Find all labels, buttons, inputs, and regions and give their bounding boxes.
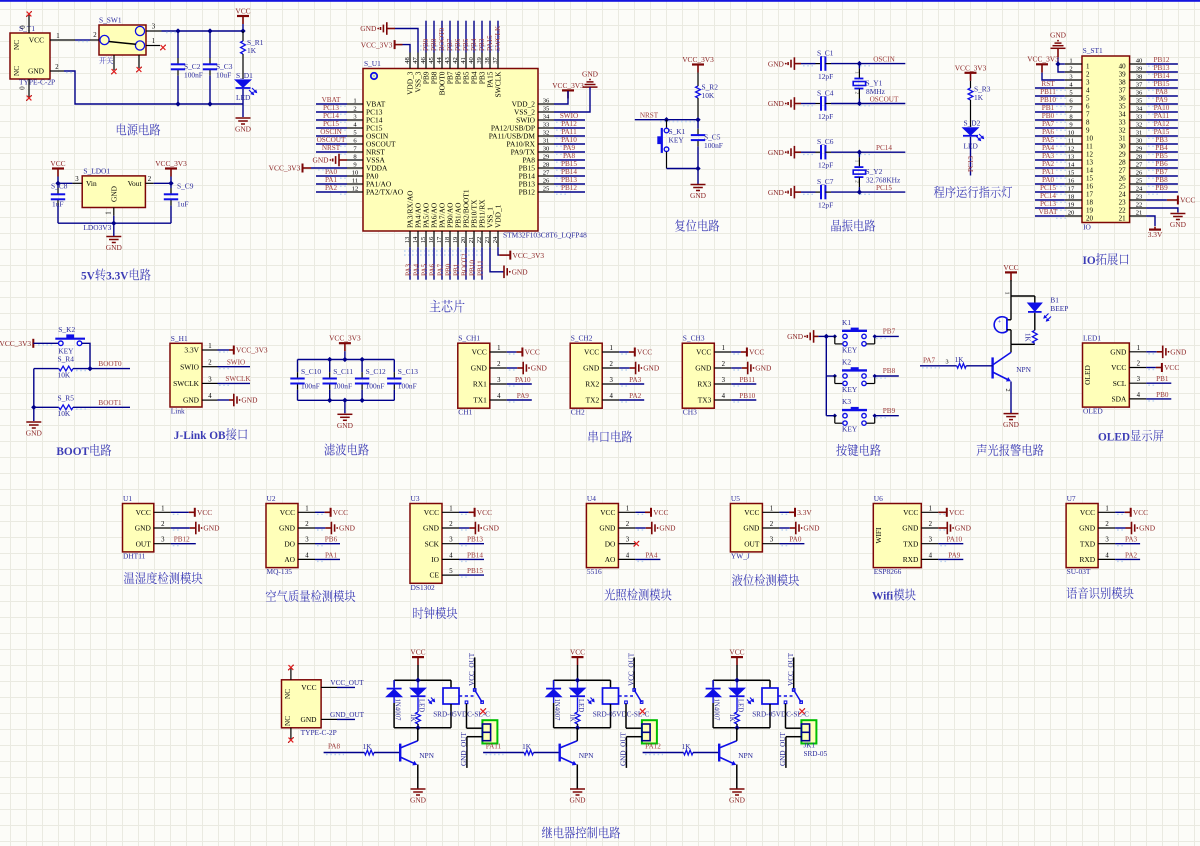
wire key to cap bottom (667, 168, 699, 170)
S_ST1 pin 16 line (1065, 177, 1082, 184)
svg-text:PA12: PA12 (561, 120, 577, 128)
svg-text:3: 3 (770, 537, 774, 544)
svg-text:TX3: TX3 (698, 396, 712, 405)
svg-text:41: 41 (460, 57, 467, 64)
module U3 body (410, 504, 442, 584)
svg-text:TX1: TX1 (473, 396, 487, 405)
connector T name TYPE-C-2P (301, 728, 337, 737)
svg-text:PB4: PB4 (470, 38, 478, 51)
ground GND filter (337, 414, 354, 430)
svg-text:3: 3 (161, 537, 165, 544)
wire U5 pin1 to 3.3V (779, 512, 789, 514)
S_CH3 pin name VCC (696, 348, 711, 357)
buzzer B1 designator (1050, 296, 1059, 305)
resistor lead to rail (577, 724, 579, 728)
capacitor S_C13 leads (393, 360, 395, 401)
wire net OSCOUT to pin 6 (316, 144, 348, 146)
net label PB0 (1156, 391, 1169, 399)
relay part name SRD-05VDC-SL-C (593, 711, 650, 719)
crystal lead top (858, 152, 860, 167)
svg-text:GND: GND (183, 396, 200, 405)
svg-text:35: 35 (543, 105, 550, 112)
U4 pin name VCC (600, 508, 615, 517)
S_H1 pin name GND (183, 396, 200, 405)
svg-text:GND: GND (1079, 524, 1096, 533)
connector JK body (801, 720, 816, 743)
svg-text:23: 23 (1136, 193, 1143, 200)
svg-text:4: 4 (353, 121, 357, 128)
wire pin 29 to net PA8 (554, 160, 585, 162)
S_ST1 pin 32 number inside (1119, 126, 1127, 134)
svg-text:3: 3 (1105, 537, 1109, 544)
svg-text:PB15: PB15 (467, 567, 483, 575)
svg-text:PC15: PC15 (323, 120, 339, 128)
svg-text:GND: GND (471, 364, 488, 373)
net label PC13 (1040, 200, 1056, 208)
svg-text:19: 19 (452, 236, 459, 243)
U6 pin name RXD (903, 555, 919, 564)
wire GND_OUT t (337, 718, 355, 720)
svg-text:2: 2 (626, 521, 630, 528)
svg-text:9: 9 (353, 161, 357, 168)
svg-text:AO: AO (284, 555, 295, 564)
power port VCC_3V3 at LDO out (155, 159, 187, 177)
net label GND_OUT (330, 711, 365, 719)
S_H1 pin 1 line (202, 343, 218, 350)
svg-text:15: 15 (1086, 174, 1094, 182)
S_U1 pin 5 name OSCIN (366, 132, 389, 141)
connector T TYPE-C-2P body (282, 680, 322, 728)
svg-text:NRST: NRST (640, 111, 659, 119)
power 3.3V at U5 pin1 (789, 508, 812, 517)
svg-text:KEY: KEY (842, 345, 858, 354)
wire H1 pin3 SWCLK (218, 383, 251, 385)
svg-text:3: 3 (1069, 73, 1073, 80)
junction key branch (664, 118, 668, 122)
ground GND at U2 pin2 (331, 522, 355, 535)
svg-text:TXD: TXD (1080, 539, 1096, 548)
svg-text:2: 2 (1105, 521, 1109, 528)
net label PB7 (883, 328, 896, 336)
resistor 1K input value (522, 743, 532, 751)
U7 pin 1 line (1098, 505, 1115, 512)
svg-text:GND: GND (1139, 524, 1156, 533)
svg-text:0: 0 (20, 86, 27, 90)
wire U6 pin4 net PA9 (938, 559, 963, 561)
net label VCC_OUT vertical (787, 652, 795, 686)
capacitor S_C2 (171, 64, 185, 69)
light-blue marks under bottom pins (404, 251, 481, 255)
resistor S_R3 designator (974, 85, 991, 94)
svg-text:PC14: PC14 (876, 144, 892, 152)
S_ST1 pin 18 number inside (1086, 198, 1094, 206)
wire trunk to key K2 (826, 375, 835, 377)
S_U1 pin 40 line (468, 53, 475, 69)
wire net PA4 to ST1 pin 12 (1035, 152, 1066, 154)
S_CH2 pin name VCC (584, 348, 599, 357)
svg-text:NPN: NPN (579, 751, 594, 760)
svg-text:BEEP: BEEP (1050, 304, 1068, 313)
net label PB9 (883, 407, 896, 415)
S_U1 pin 43 name PB7 (446, 71, 455, 84)
S_U1 pin 10 line (347, 169, 363, 176)
module LED1 designator (1083, 334, 1101, 343)
S_U1 pin 33 line (538, 121, 554, 128)
svg-text:31: 31 (543, 137, 550, 144)
U4 pin name GND (599, 524, 616, 533)
title 时钟模块 (413, 607, 457, 619)
wire U2 pin4 net PA1 (315, 559, 340, 561)
wire NRST (635, 120, 698, 122)
svg-text:TYPE-C-2P: TYPE-C-2P (301, 728, 337, 737)
svg-text:PB11: PB11 (477, 260, 485, 276)
wire H1 pin2 SWIO (218, 367, 251, 369)
wire ST1 pin 26 to net PB7 (1146, 176, 1178, 178)
svg-text:OLED: OLED (1083, 407, 1103, 416)
svg-text:PB5: PB5 (1155, 152, 1168, 160)
svg-text:K2: K2 (842, 358, 851, 367)
svg-text:PC14: PC14 (323, 112, 339, 120)
net label PA8 (1155, 88, 1168, 96)
net label PB12 (561, 184, 577, 192)
svg-text:S_C9: S_C9 (177, 182, 194, 191)
junction K1 left (833, 335, 836, 338)
svg-text:4: 4 (449, 552, 453, 559)
capacitor S_C13 designator (398, 367, 418, 376)
wire U1 pin3 net PB12 (171, 544, 196, 546)
wire pin24 to VCC_3V3 (498, 247, 499, 255)
svg-text:45: 45 (428, 57, 435, 64)
svg-text:4: 4 (208, 393, 212, 400)
relay loop bottom rail (713, 727, 770, 729)
wire gnd to S_C4 (801, 104, 821, 106)
wire LED1 pin3 net PB1 (1146, 383, 1171, 385)
svg-text:100nF: 100nF (184, 71, 203, 80)
wire pin23 to GND (490, 247, 504, 271)
net label BOOT1 (98, 399, 122, 407)
resistor S_R2 designator (702, 83, 719, 92)
module U1 body (123, 504, 154, 552)
capacitor S_C3 (203, 64, 217, 69)
key K2 hook left (835, 376, 843, 384)
svg-text:PC15: PC15 (1040, 184, 1056, 192)
capacitor S_C3 leads (209, 31, 211, 104)
svg-text:PB10: PB10 (1040, 96, 1056, 104)
net label PA0 (789, 536, 802, 544)
power VCC_3V3 filter (329, 334, 361, 352)
S_U1 pin 8 line (347, 153, 363, 160)
regulator S_LDO1 name LDO3V3 (83, 223, 111, 232)
S_U1 pin 24 name VDD_1 (494, 204, 503, 228)
svg-text:VCC: VCC (600, 508, 615, 517)
relay fixed contact (784, 701, 787, 704)
power VCC at S_CH2 pin1 (629, 348, 652, 357)
relay loop right bottom (450, 704, 452, 728)
svg-text:VCC: VCC (301, 683, 316, 692)
transistor NPN relay (400, 741, 434, 765)
wire pin 13 down net PA3 (409, 247, 411, 279)
capacitor S_C8 designator (51, 182, 68, 191)
svg-text:2: 2 (449, 521, 453, 528)
U2 pin 1 line (298, 505, 315, 512)
svg-text:27: 27 (1119, 166, 1127, 174)
U2 pin name GND (279, 524, 296, 533)
module U3 designator (411, 494, 420, 503)
key S_K1 contact top (664, 128, 669, 133)
S_H1 pin name SWIO (180, 362, 200, 371)
U3 pin name SCK (425, 539, 440, 548)
wire S_CH1 pin4 net PA9 (507, 400, 532, 402)
wire S_CH3 pin4 net PB10 (731, 400, 756, 402)
net label PA3 (629, 376, 642, 384)
junction C2 bottom (176, 102, 180, 106)
svg-text:1uF: 1uF (52, 200, 64, 209)
svg-text:4: 4 (1086, 86, 1090, 94)
transistor NPN relay (560, 741, 594, 765)
wire key trunk (825, 336, 827, 415)
svg-text:5: 5 (1086, 94, 1090, 102)
svg-text:44: 44 (436, 57, 443, 64)
svg-text:PA4: PA4 (645, 551, 658, 559)
svg-text:VCC: VCC (525, 348, 540, 357)
svg-text:9: 9 (1086, 126, 1090, 134)
svg-text:VCC: VCC (472, 348, 487, 357)
wire U6 pin2 to GND (938, 528, 947, 530)
S_U1 pin 20 name PB2/BOOT1 (462, 189, 471, 228)
svg-text:3: 3 (353, 113, 357, 120)
S_ST1 pin 14 number inside (1086, 166, 1094, 174)
svg-text:22: 22 (1119, 206, 1127, 214)
ground GND at S_CH3 pin2 (748, 362, 772, 375)
wire U3 pin3 net PB13 (459, 544, 484, 546)
S_U1 pin 15 name PA5/AO (422, 202, 431, 228)
wire ST1 pin 38 to net PB14 (1146, 80, 1178, 82)
key K3 hook left (835, 416, 843, 424)
wire pin 34 to net SWIO (554, 120, 585, 122)
svg-text:PA3: PA3 (1042, 152, 1055, 160)
module U6 designator (874, 494, 883, 503)
svg-text:16: 16 (1068, 177, 1075, 184)
svg-text:3: 3 (305, 537, 309, 544)
U4 pin 2 line (618, 521, 635, 528)
svg-text:OSCOUT: OSCOUT (317, 136, 346, 144)
svg-text:MQ-135: MQ-135 (267, 567, 293, 576)
key K3 contact circles left (843, 414, 847, 426)
svg-text:1: 1 (853, 71, 859, 74)
wire LDO GND down (113, 216, 115, 223)
S_U1 pin 12 name PA2/TX/AO (366, 188, 404, 197)
S_ST1 pin 37 number inside (1119, 86, 1127, 94)
net label PB0 vertical (445, 263, 453, 276)
svg-text:GND: GND (768, 59, 785, 68)
net label PA15 (1154, 128, 1170, 136)
S_ST1 pin 27 number inside (1119, 166, 1127, 174)
relay loop top rail (394, 679, 451, 681)
S_SW1 contact circle bottom-right (135, 41, 144, 50)
S_ST1 pin 5 line (1065, 89, 1082, 96)
svg-text:2: 2 (609, 361, 613, 368)
connector S_T1 part name TYPE-C-2P (19, 78, 55, 87)
svg-text:1K: 1K (409, 714, 416, 722)
resistor 1K alarm (1032, 330, 1037, 343)
svg-text:24: 24 (492, 236, 499, 243)
resistor S_R5 (59, 405, 73, 410)
S_SW1 pin 1 (146, 38, 160, 46)
svg-text:SWCLK: SWCLK (225, 375, 251, 383)
junction C3 top (208, 29, 212, 33)
capacitor S_C10 leads (297, 360, 299, 401)
net label SWCLK vertical (494, 25, 502, 51)
title 复位电路 (675, 219, 719, 231)
svg-text:RST: RST (1041, 80, 1055, 88)
LED relay label (736, 699, 743, 712)
LED S_D1 arrows (249, 88, 257, 95)
wire ST1 pin 32 to net PA12 (1146, 128, 1178, 130)
title 光照检测模块 (604, 588, 671, 600)
svg-text:40: 40 (1119, 62, 1127, 70)
wire filter top rail (298, 359, 395, 361)
svg-text:2: 2 (161, 521, 165, 528)
U3 pin 2 line (442, 521, 459, 528)
wire net PA7 to ST1 pin 9 (1035, 128, 1066, 130)
svg-text:S_C4: S_C4 (817, 88, 834, 97)
net label PA15 vertical (486, 35, 494, 51)
S_U1 pin 4 name PC15 (366, 124, 383, 133)
net label GND_OUT vertical (460, 731, 468, 766)
svg-text:PA0: PA0 (789, 536, 802, 544)
svg-text:S_R5: S_R5 (58, 394, 75, 403)
svg-text:OSCOUT: OSCOUT (870, 96, 899, 104)
S_ST1 pin 17 number inside (1086, 190, 1094, 198)
module U7 designator (1067, 494, 1076, 503)
svg-text:PB10: PB10 (739, 392, 755, 400)
svg-text:32: 32 (543, 129, 550, 136)
svg-text:21: 21 (1119, 214, 1127, 222)
svg-text:100nF: 100nF (398, 381, 417, 390)
svg-text:15: 15 (420, 236, 427, 243)
key S_K1 bottom lead (666, 152, 668, 169)
wire net PB11 to ST1 pin 5 (1035, 96, 1066, 98)
module S_CH3 name CH3 (683, 408, 697, 417)
svg-text:NC: NC (12, 66, 21, 76)
svg-text:6: 6 (353, 137, 357, 144)
capacitor S_C11 designator (333, 367, 353, 376)
svg-text:VCC: VCC (696, 348, 711, 357)
svg-text:27: 27 (1136, 161, 1143, 168)
net label PA2 (325, 184, 338, 192)
svg-text:PB15: PB15 (1154, 80, 1170, 88)
S_ST1 pin 34 number inside (1119, 110, 1127, 118)
S_U1 pin 23 line (484, 231, 491, 247)
S_CH3 pin name TX3 (698, 396, 712, 405)
svg-text:30: 30 (1136, 137, 1143, 144)
S_ST1 pin 10 number inside (1086, 134, 1094, 142)
svg-text:8: 8 (1086, 118, 1090, 126)
svg-text:U1: U1 (123, 494, 132, 503)
S_U1 pin 13 line (404, 231, 411, 247)
svg-text:GND_OUT: GND_OUT (779, 731, 787, 766)
net label PB12 (1154, 56, 1170, 64)
svg-text:2: 2 (93, 32, 97, 39)
resistor S_R4 designator (58, 355, 75, 364)
junction LED branch top (735, 678, 739, 682)
S_ST1 pin 4 line (1065, 81, 1082, 88)
S_T1 pin name NC bottom (12, 66, 21, 76)
resistor 1K relay label (569, 714, 576, 722)
pin number 3 base (945, 359, 948, 366)
junction VCC C8 (56, 181, 60, 185)
resistor 1K input value (363, 743, 373, 751)
svg-text:GND: GND (1170, 220, 1187, 229)
switch S_SW1 designator (99, 16, 122, 25)
svg-text:VCC_3V3: VCC_3V3 (0, 339, 31, 348)
S_CH1 pin name RX1 (473, 380, 487, 389)
wire U2 pin2 to GND (315, 528, 331, 530)
svg-text:VCC: VCC (729, 648, 744, 657)
svg-text:RX1: RX1 (473, 380, 487, 389)
ground GND at U6 pin2 (947, 522, 971, 535)
S_ST1 pin 24 line (1130, 185, 1147, 192)
connector JK body (482, 720, 497, 743)
S_CH1 pin 1 line (490, 345, 507, 352)
wire ST1 pin 33 to net PA11 (1146, 120, 1178, 122)
svg-text:GND: GND (768, 188, 785, 197)
svg-text:VCC: VCC (197, 508, 212, 517)
svg-text:3.3V: 3.3V (184, 346, 199, 355)
S_CH2 pin 2 line (602, 361, 619, 368)
crystal pin 2 mark (853, 180, 859, 183)
S_ST1 pin 29 number inside (1119, 150, 1127, 158)
S_U1 pin 14 line (412, 231, 419, 247)
svg-text:38: 38 (484, 57, 491, 64)
svg-text:20: 20 (460, 236, 467, 243)
svg-text:PA3: PA3 (405, 263, 413, 276)
svg-text:2: 2 (353, 105, 356, 112)
S_U1 pin 18 line (444, 231, 451, 247)
S_LDO1 pin 3 (72, 176, 82, 184)
svg-text:Link: Link (171, 407, 185, 416)
LED relay (570, 680, 585, 696)
svg-text:1: 1 (929, 505, 932, 512)
U6 pin 4 line (921, 552, 938, 559)
svg-text:PA10: PA10 (515, 376, 531, 384)
svg-text:PA2: PA2 (1042, 160, 1055, 168)
no-connect X on S_T1 top pin (26, 11, 32, 17)
svg-text:7: 7 (1069, 105, 1073, 112)
relay part name SRD-05VDC-SL-C (433, 711, 490, 719)
svg-text:PB0: PB0 (1156, 391, 1169, 399)
key K1 hook left (835, 336, 843, 344)
wire pin 37 up net SWCLK (497, 21, 499, 53)
module S_CH1 body (458, 343, 490, 408)
ground GND above ST1 (1050, 31, 1067, 49)
U5 pin 2 line (762, 521, 779, 528)
svg-text:VCC_3V3: VCC_3V3 (329, 334, 361, 343)
svg-text:PA10: PA10 (1154, 104, 1170, 112)
wire ST1 pin 29 to net PB4 (1146, 152, 1178, 154)
relay loop right bottom (610, 704, 612, 728)
svg-text:4: 4 (929, 552, 933, 559)
wire input to 1K (643, 753, 684, 755)
capacitor S_C7 designator (817, 177, 834, 186)
svg-text:36: 36 (1119, 94, 1127, 102)
LED1 pin name SDA (1112, 395, 1127, 404)
svg-text:PA3: PA3 (1125, 536, 1138, 544)
svg-text:25: 25 (1136, 177, 1143, 184)
svg-text:SWCLK: SWCLK (494, 71, 503, 98)
svg-text:2: 2 (853, 92, 859, 95)
wire pin 39 up net PB3 (481, 21, 483, 53)
